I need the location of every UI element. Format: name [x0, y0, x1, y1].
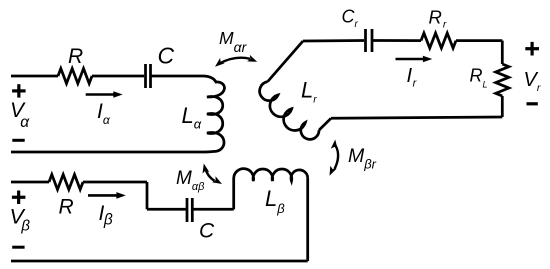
wire: beta bottom return wire [11, 260, 308, 263]
wire: r top wire from C_r to R_r [373, 39, 421, 42]
wire: r bottom wire [331, 117, 502, 118]
wire: r right side down to R_L [501, 41, 504, 64]
wire: beta circuit top wire left segment [11, 181, 49, 184]
wire: beta riser to coil [232, 178, 235, 209]
svg-text:Mαr: Mαr [219, 28, 248, 55]
mutual inductance arrow M_alpha-beta [203, 164, 223, 185]
wire: r circuit diagonal from coil to bottom wire [319, 118, 331, 130]
current arrow I_r [396, 56, 433, 63]
wire: r circuit diagonal from corner to coil [268, 41, 303, 82]
wire: beta right side down [306, 178, 309, 261]
wire: beta wire to capacitor [147, 208, 186, 211]
mutual inductance arrow M_alpha-r [215, 55, 257, 67]
svg-text:Ir: Ir [407, 65, 418, 90]
wire: r top wire from R_r to corner [456, 39, 502, 42]
svg-text:RL: RL [470, 65, 488, 89]
capacitor C_r plates [364, 29, 367, 52]
svg-text:Vr: Vr [524, 69, 541, 94]
svg-text:C: C [158, 43, 175, 69]
capacitor C (beta circuit) plates [186, 198, 189, 222]
svg-text:Lα: Lα [182, 103, 202, 132]
resistor R_L (vertical) [496, 64, 509, 96]
current arrow I_beta [88, 192, 126, 199]
wire: alpha circuit top wire left segment [11, 75, 58, 78]
inductor L_beta (horizontal coil, bumps up) [234, 169, 308, 181]
wire: alpha top wire between R and C [92, 75, 144, 78]
svg-text:Lr: Lr [301, 78, 317, 106]
wire: beta top wire from R to step [83, 181, 147, 184]
wire: alpha bottom return wire [11, 151, 204, 154]
svg-text:R: R [59, 196, 74, 219]
resistor R_r [421, 33, 456, 48]
wire: beta wire from C to coil [193, 208, 233, 211]
svg-text:Mαβ: Mαβ [176, 168, 205, 193]
svg-text:R: R [68, 45, 83, 68]
minus sign (V_beta) [12, 246, 24, 249]
wire: beta step down [146, 182, 149, 209]
svg-text:Cr: Cr [342, 6, 359, 30]
minus sign (V_r) [527, 102, 538, 105]
plus sign (V_beta) [12, 191, 26, 205]
svg-text:Iα: Iα [97, 100, 111, 127]
resistor R (alpha circuit) [58, 69, 92, 84]
plus sign (V_alpha) [12, 84, 26, 97]
svg-text:C: C [199, 220, 215, 243]
wire: r right side below R_L [501, 96, 504, 117]
inductor L_r (diagonal coil, bumps lower-left) [260, 82, 319, 140]
wire: alpha top wire from C to corner [152, 75, 205, 78]
svg-text:Rr: Rr [429, 6, 447, 30]
svg-text:Lβ: Lβ [265, 186, 285, 216]
svg-text:Vβ: Vβ [10, 205, 31, 235]
plus sign (V_r) [525, 42, 539, 56]
current arrow I_alpha [86, 91, 123, 98]
inductor L_alpha (vertical coil, bumps right) [204, 76, 224, 152]
svg-text:Iβ: Iβ [99, 202, 113, 228]
capacitor C (alpha circuit) plates [144, 64, 147, 88]
svg-text:Vα: Vα [10, 99, 30, 131]
mutual inductance arrow M_beta-r [330, 140, 339, 176]
svg-text:Mβr: Mβr [348, 145, 377, 171]
resistor R (beta circuit) [49, 175, 83, 190]
minus sign (V_alpha) [12, 139, 24, 142]
wire: r circuit top wire to C_r [303, 39, 364, 42]
